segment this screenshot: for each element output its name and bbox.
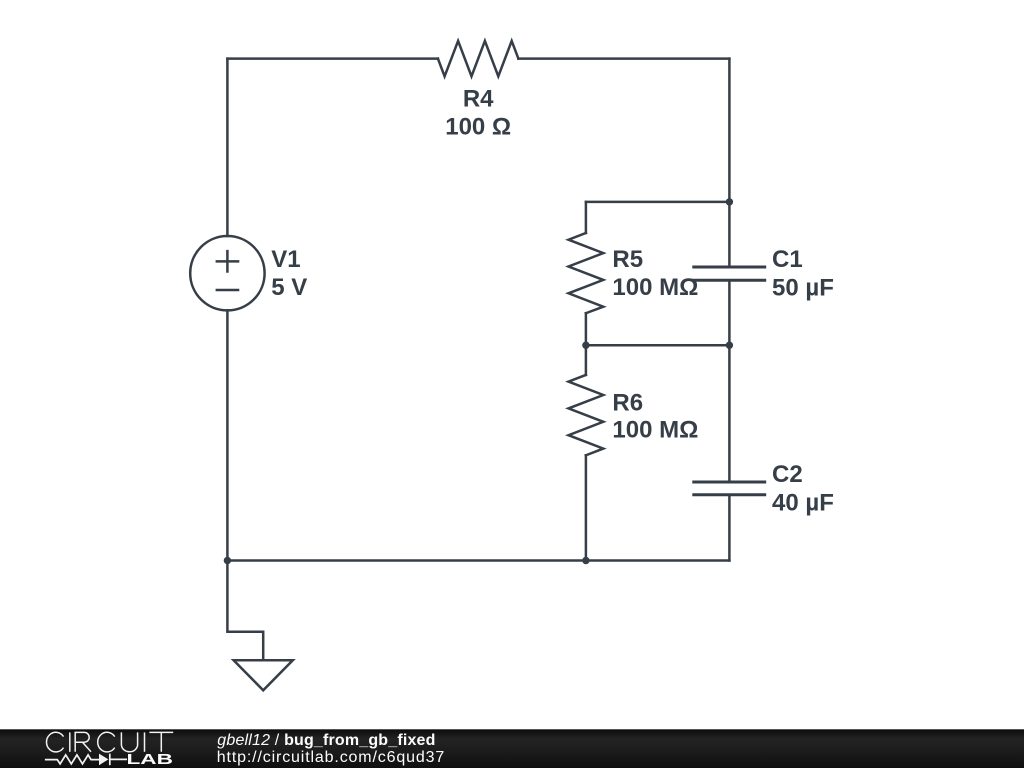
- wire R6 top stub: [585, 345, 588, 375]
- footer title line: [217, 732, 435, 749]
- footer url line: [217, 749, 445, 766]
- junction node R5/R6 mid left: [582, 342, 589, 349]
- voltage source V1 circle: [190, 236, 264, 310]
- svg-text:gbell12 / bug_from_gb_fixed: gbell12 / bug_from_gb_fixed: [217, 732, 435, 749]
- resistor R5: [569, 233, 604, 313]
- resistor R4: [438, 41, 519, 76]
- svg-text:100 Ω: 100 Ω: [445, 114, 511, 141]
- ground symbol triangle: [234, 660, 293, 690]
- svg-text:C1: C1: [772, 246, 803, 273]
- V1 minus sign: [216, 289, 240, 292]
- logo LAB text: [127, 752, 173, 768]
- svg-text:C2: C2: [772, 461, 803, 488]
- wire left vertical (top corner down to V1): [226, 59, 229, 236]
- wire top-left horizontal (node from V1+ to R4): [227, 57, 438, 60]
- capacitor C2 plates: [692, 482, 766, 495]
- wire right rail node B down to C2: [728, 345, 731, 482]
- svg-text:LAB: LAB: [127, 752, 173, 768]
- junction node R5-top / right rail: [726, 198, 733, 205]
- logo resistor-diode symbol: [45, 754, 127, 766]
- capacitor C1 plates: [692, 267, 766, 280]
- wire R4 to top-right corner: [518, 57, 729, 60]
- logo CIRCUIT lettering: [47, 732, 174, 752]
- wire bottom rail: [227, 559, 729, 562]
- junction node bottom-left (ground tap): [224, 557, 231, 564]
- wire right vertical (top corner down to C1): [728, 59, 731, 267]
- svg-text:100 MΩ: 100 MΩ: [612, 416, 698, 443]
- svg-text:50 µF: 50 µF: [772, 274, 834, 301]
- logo diode triangle: [99, 754, 108, 766]
- svg-text:R5: R5: [612, 246, 643, 273]
- wire V1 bottom to bottom-left corner: [226, 310, 229, 560]
- wire right rail C1 bottom to node B: [728, 280, 731, 345]
- svg-text:100 MΩ: 100 MΩ: [612, 274, 698, 301]
- svg-text:40 µF: 40 µF: [772, 489, 834, 516]
- wire node A horizontal (R5 top to right rail): [586, 201, 730, 204]
- wire R5 top vertical stub: [585, 202, 588, 233]
- junction node mid right rail: [726, 342, 733, 349]
- svg-text:R4: R4: [463, 86, 494, 113]
- svg-text:R6: R6: [612, 389, 643, 416]
- junction node bottom R6: [582, 557, 589, 564]
- wire C2 bottom to bottom rail: [728, 495, 731, 561]
- svg-text:http://circuitlab.com/c6qud37: http://circuitlab.com/c6qud37: [217, 749, 445, 766]
- V1 plus sign: [216, 250, 240, 273]
- ground wire tap: [227, 561, 263, 661]
- svg-text:5 V: 5 V: [271, 274, 307, 301]
- wire node B horizontal (R5/R6 junction to right rail): [586, 344, 730, 347]
- wire R5 bottom stub: [585, 313, 588, 345]
- svg-text:V1: V1: [271, 246, 300, 273]
- resistor R6: [569, 375, 604, 455]
- wire R6 bottom to bottom rail: [585, 455, 588, 560]
